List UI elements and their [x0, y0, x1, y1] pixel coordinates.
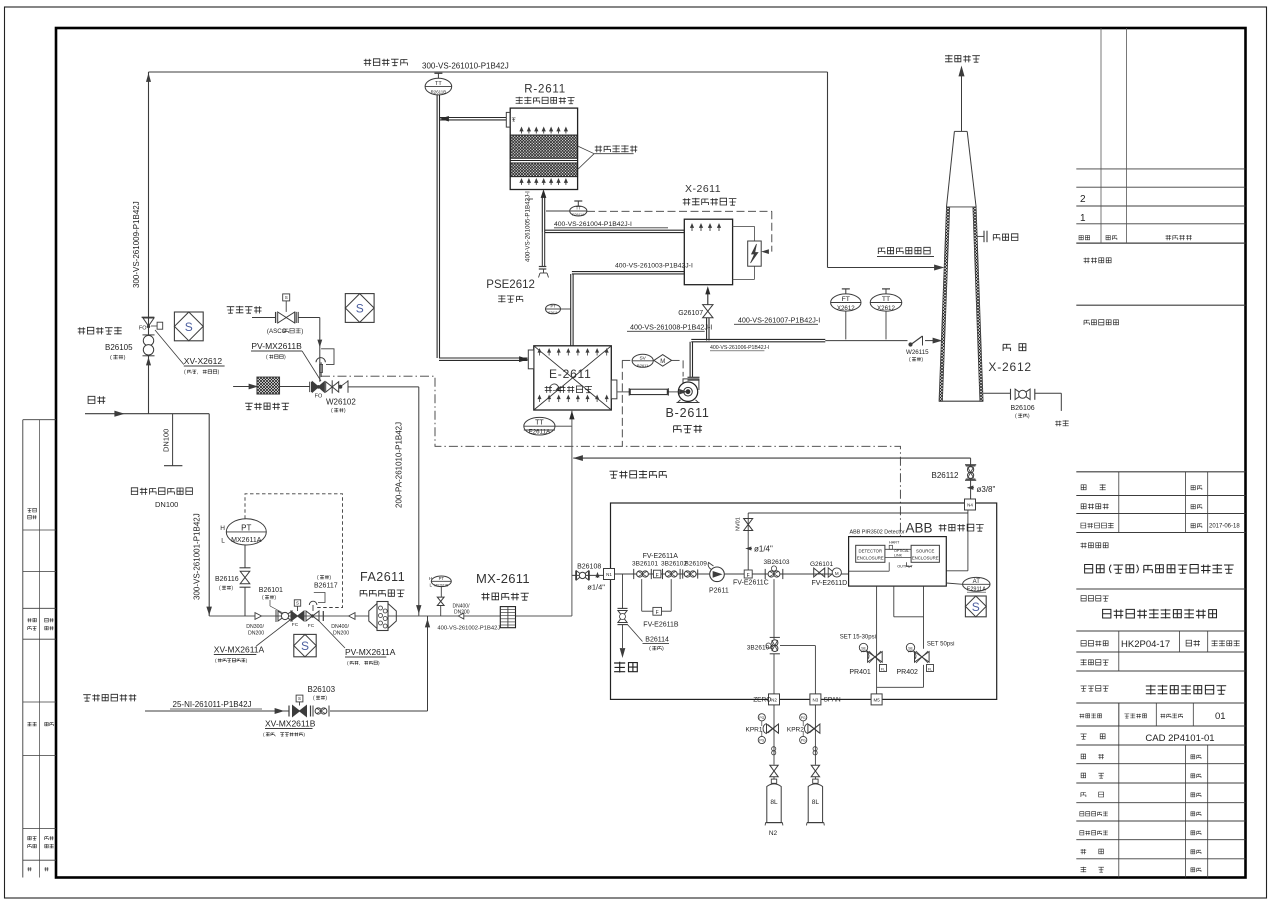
label 应急排放阀: [78, 327, 86, 334]
svg-text:2: 2: [1080, 194, 1086, 205]
svg-text:LINK: LINK: [894, 554, 903, 558]
svg-text:S: S: [356, 302, 364, 316]
regulator KPR1 and cylinder: [746, 705, 783, 826]
svg-text:KPR1: KPR1: [746, 727, 763, 734]
svg-text:3B26101: 3B26101: [632, 561, 658, 568]
svg-text:): ): [344, 408, 346, 414]
valve B26112: [965, 458, 976, 504]
label PV-MX2611A: [318, 620, 396, 667]
svg-text:HK2P04-17: HK2P04-17: [1121, 639, 1170, 650]
svg-text:E-2611: E-2611: [549, 367, 592, 381]
svg-text:SV: SV: [639, 355, 646, 361]
label XV-MX2611A: [214, 620, 290, 664]
svg-text:FA2611: FA2611: [360, 570, 405, 584]
svg-text:B26117: B26117: [314, 583, 338, 590]
svg-text:W26115: W26115: [906, 349, 929, 356]
heater element SCR box: [733, 226, 762, 279]
label 达标排放: [945, 55, 953, 63]
label B26103: [308, 685, 336, 702]
svg-text:ø3/8": ø3/8": [977, 485, 996, 494]
svg-text:OPTICAL: OPTICAL: [894, 549, 909, 553]
svg-text:F: F: [656, 573, 659, 579]
interlock diamond S1: [174, 312, 203, 341]
svg-text:H: H: [220, 525, 225, 532]
svg-text:PG: PG: [759, 739, 764, 743]
pipe main process line: [209, 615, 572, 617]
svg-text:X2612: X2612: [877, 305, 895, 312]
pipe nitrogen purge: [145, 709, 428, 714]
svg-text:): ): [284, 355, 286, 361]
pipe analyzer train: [615, 573, 849, 575]
flow marker right: [255, 613, 262, 620]
heater X-2611 vessel: [684, 219, 732, 285]
svg-text:FL: FL: [881, 667, 885, 671]
svg-text:DN100: DN100: [162, 429, 171, 452]
svg-text:): ): [124, 355, 126, 361]
title block grid: [1076, 28, 1245, 878]
label PR401 SET: [840, 635, 876, 677]
svg-text:TT: TT: [882, 296, 890, 303]
svg-text:FC: FC: [308, 623, 315, 629]
sample vent B26114: [618, 574, 628, 657]
svg-text:400-VS-261002-P1B42J: 400-VS-261002-P1B42J: [437, 626, 500, 632]
interlock diamond S4: [965, 596, 986, 617]
svg-text:B26103: B26103: [308, 685, 336, 694]
svg-text:1: 1: [1080, 213, 1086, 224]
svg-text:3B26102: 3B26102: [661, 561, 687, 568]
svg-text:): ): [301, 328, 303, 335]
pipe emergency vent header 300-VS-261010: [147, 72, 828, 414]
pipe heater inlet from E-2611: [571, 272, 685, 346]
valve 3B26104: [747, 579, 816, 694]
svg-text:CAD 2P4101-01: CAD 2P4101-01: [1145, 733, 1214, 744]
svg-text:HART: HART: [889, 541, 900, 545]
svg-text:PG: PG: [801, 739, 806, 743]
svg-text:S: S: [972, 600, 980, 614]
svg-text:ø1/4": ø1/4": [754, 545, 773, 554]
label DN300/DN200: [246, 624, 264, 637]
valve B26109: [682, 569, 684, 578]
label ABB 气体检测器: [906, 521, 984, 536]
calibration header pipe: [748, 510, 968, 571]
pipe fan discharge header: [690, 338, 941, 377]
svg-text:FO: FO: [139, 326, 147, 332]
svg-text:400-VS-261006-P1B42J-I: 400-VS-261006-P1B42J-I: [710, 345, 769, 351]
label 引风机: [674, 426, 682, 433]
junction N1: [604, 569, 615, 580]
svg-text:S: S: [285, 295, 288, 300]
svg-text:KPR2: KPR2: [787, 727, 804, 734]
valve XV-MX2611B: [289, 695, 311, 716]
pipe E-2611 bottom riser: [570, 410, 574, 616]
svg-text:FC: FC: [292, 622, 299, 628]
interlock diamond S3: [294, 634, 316, 656]
svg-text:DN200: DN200: [248, 631, 264, 637]
instrument FT X2612: [831, 294, 861, 311]
instrument PT MX2611B: [429, 576, 451, 616]
svg-text:G26107: G26107: [678, 310, 703, 317]
svg-text:G26101: G26101: [810, 561, 834, 568]
svg-text:SET 15-30psi: SET 15-30psi: [840, 635, 876, 641]
svg-text:300-VS-261010-P1B42J: 300-VS-261010-P1B42J: [422, 62, 509, 71]
pipe stack insulation line: [828, 72, 944, 270]
svg-text:XV-MX2611B: XV-MX2611B: [265, 719, 316, 729]
sampling port 采样口: [978, 231, 1018, 243]
valve G26101: [810, 561, 834, 577]
pipe sample take-off B26108: [572, 571, 604, 581]
label 废气进口采样口: [131, 488, 137, 495]
label B26106: [1011, 405, 1035, 420]
svg-text:PR401: PR401: [849, 669, 871, 676]
svg-text:FV-E2611C: FV-E2611C: [733, 580, 769, 587]
actuator PV-MX2611B: [316, 349, 334, 377]
svg-text:M: M: [835, 571, 839, 576]
svg-text:400-VS-261004-P1B42J-I: 400-VS-261004-P1B42J-I: [554, 221, 632, 228]
check valve W26115: [909, 336, 923, 346]
label PR402 SET: [897, 642, 955, 677]
dashed fan interlock box: [622, 360, 683, 446]
ABB detector unit: [849, 537, 947, 587]
svg-text:,: ,: [359, 662, 360, 667]
svg-text:TT: TT: [535, 420, 544, 427]
svg-text:R2611A: R2611A: [572, 213, 585, 217]
reactor R-2611 vessel: [506, 108, 577, 189]
svg-text:N2: N2: [769, 830, 778, 837]
svg-text:PT: PT: [241, 523, 251, 532]
fan B-2611: [677, 377, 700, 402]
svg-text:F: F: [656, 610, 659, 616]
svg-text:ABB PIR3502 Detector: ABB PIR3502 Detector: [850, 530, 905, 536]
pump P2611: [708, 563, 729, 595]
svg-text:3B26104: 3B26104: [747, 645, 773, 652]
flame arrestor FA2611: [369, 602, 397, 631]
svg-text:(: (: [1015, 414, 1017, 420]
svg-text:N4: N4: [967, 503, 973, 508]
svg-text:400-VS-261007-P1B42J-I: 400-VS-261007-P1B42J-I: [738, 316, 820, 325]
svg-text:B2611: B2611: [637, 363, 649, 368]
valve 3B26101: [633, 569, 635, 579]
svg-text:ENCLOSURE: ENCLOSURE: [857, 556, 884, 561]
svg-text:PV-MX2611A: PV-MX2611A: [345, 647, 396, 657]
svg-text:TT: TT: [576, 206, 582, 211]
stack discharge arrow: [959, 67, 964, 131]
svg-text:SOURCE: SOURCE: [916, 549, 935, 554]
svg-text:PG: PG: [801, 716, 806, 720]
instrument TT R2611A: [570, 206, 587, 216]
label 氮气吹扫排气: [83, 695, 91, 702]
svg-text:400-VS-261003-P1B42J-I: 400-VS-261003-P1B42J-I: [615, 263, 693, 270]
chimney X-2612: [939, 131, 983, 401]
pipe fresh air: [298, 318, 322, 382]
title block text: [1079, 194, 1240, 872]
svg-text:8L: 8L: [812, 799, 820, 806]
svg-text:(: (: [110, 355, 112, 361]
svg-text:MX-2611: MX-2611: [476, 571, 530, 586]
label 返回工艺管道: [610, 471, 618, 478]
svg-text:E2611: E2611: [549, 311, 558, 315]
bursting disc PSE2612: [539, 267, 549, 278]
label 新鲜空气: [227, 307, 235, 314]
static mixer MX-2611: [500, 607, 515, 628]
label B26117: [314, 575, 338, 590]
svg-text:FL: FL: [928, 667, 932, 671]
dash-dot heater control signal: [587, 211, 772, 253]
label 400-VS-261004-P1B42J-I: [554, 221, 668, 228]
svg-text:N2: N2: [771, 697, 777, 702]
svg-text:400-VS-261005-P1B42J-I: 400-VS-261005-P1B42J-I: [525, 191, 532, 262]
valve FV-E2611D: [812, 568, 848, 587]
label 管道阻火器: [360, 590, 367, 596]
pipe return to process: [573, 456, 970, 461]
label 气体混合器: [481, 593, 489, 601]
svg-text:,: ,: [275, 733, 276, 738]
dash-dot signal boundary: [321, 376, 900, 536]
instrument TT X2612: [870, 294, 902, 311]
svg-text:400-VS-261008-P1B42J-I: 400-VS-261008-P1B42J-I: [630, 323, 712, 332]
label B26114: [627, 624, 669, 652]
analyzer AT E2911A: [946, 577, 990, 592]
label XV-MX2611B: [263, 719, 316, 739]
svg-text:FV-E2611B: FV-E2611B: [643, 622, 679, 629]
filter F1: [654, 570, 661, 579]
valve W26102 FO control: [310, 380, 419, 399]
label DN400/DN200 small: [453, 604, 471, 616]
flow marker left: [349, 613, 355, 620]
svg-text:MX2611A: MX2611A: [231, 537, 262, 544]
svg-text:S: S: [298, 696, 301, 701]
label 25-NI-261011-P1B42J: [170, 700, 262, 709]
valve XV-MX2611A: [291, 600, 304, 628]
svg-text:PG: PG: [759, 716, 764, 720]
sample port DN100: [162, 414, 183, 466]
svg-text:ø1/4": ø1/4": [587, 583, 605, 592]
svg-text:X-2612: X-2612: [988, 360, 1032, 374]
svg-text:FV-E2611D: FV-E2611D: [812, 580, 848, 587]
svg-text:X-2611: X-2611: [685, 183, 721, 195]
svg-text:PR402: PR402: [897, 669, 919, 676]
svg-text:S: S: [296, 601, 299, 606]
pipe air to main line 200-PA: [417, 387, 421, 616]
svg-text:SE: SE: [861, 647, 866, 651]
label 烟囱下段保温: [877, 247, 934, 256]
svg-text:ENCLOSURE: ENCLOSURE: [912, 556, 939, 561]
svg-text:N3: N3: [813, 697, 819, 702]
valve B26105 emergency relief: [139, 317, 163, 365]
svg-text:(: (: [649, 646, 651, 652]
svg-text:S: S: [185, 320, 193, 334]
svg-text:R-2611: R-2611: [524, 84, 566, 96]
svg-text:B26112: B26112: [932, 471, 960, 480]
valve 3B26102: [662, 569, 664, 579]
valve B26103: [312, 706, 314, 717]
label 排净: [1055, 421, 1061, 427]
valve NV01: [736, 513, 774, 570]
svg-text:R2611B: R2611B: [431, 90, 447, 95]
regulator PR401: [859, 586, 886, 694]
svg-text:PSE2612: PSE2612: [486, 279, 535, 291]
svg-text:B-2611: B-2611: [666, 406, 710, 420]
svg-text:B26109: B26109: [685, 561, 708, 568]
svg-text:P2611: P2611: [709, 588, 729, 595]
heat exchanger E-2611: [528, 346, 617, 410]
svg-text:B26114: B26114: [645, 637, 669, 644]
svg-text:PT: PT: [550, 304, 556, 309]
svg-text:B26108: B26108: [577, 564, 601, 571]
svg-text:DETECTOR: DETECTOR: [859, 549, 883, 554]
filter FV-E2611C: [733, 570, 769, 587]
valve 3B26103: [764, 559, 790, 579]
instrument PT E2611: [546, 304, 571, 316]
valve ASCO solenoid: [252, 294, 298, 323]
svg-text:ABB: ABB: [906, 521, 933, 536]
label 400-VS-261005-P1B42J vertical: [525, 191, 534, 262]
svg-text:(: (: [184, 370, 186, 376]
label 400-VS-261008-P1B42J-I: [627, 323, 712, 332]
instrument TT R2611B: [425, 78, 452, 95]
label 废气: [88, 396, 95, 403]
junction N3 SPAN: [810, 694, 821, 705]
svg-text:B26101: B26101: [259, 587, 283, 594]
svg-text:FO: FO: [315, 394, 323, 400]
motor M diamond: [654, 355, 672, 367]
label PV-MX2611B: [251, 341, 321, 381]
svg-text:XV-X2612: XV-X2612: [184, 356, 223, 366]
spec break bar: [322, 611, 324, 621]
junction N2 ZERO: [769, 694, 780, 705]
svg-text:2017-06-18: 2017-06-18: [1209, 524, 1240, 530]
air filter 空气过滤器: [233, 377, 310, 394]
svg-text:SET 50psi: SET 50psi: [927, 642, 955, 648]
sample system enclosure box: [611, 503, 997, 699]
bypass FV-E2611B: [642, 579, 679, 628]
svg-text:300-VS-261009-P1B42J: 300-VS-261009-P1B42J: [132, 201, 141, 288]
instrument TT E2611A: [524, 417, 572, 435]
label 应急排放管: [364, 59, 372, 66]
instrument SV B2611: [632, 354, 653, 367]
fan suction pipe: [617, 388, 678, 395]
junction N4: [965, 499, 976, 510]
regulator PR402: [877, 586, 934, 687]
svg-text:PT: PT: [439, 576, 445, 581]
regulator KPR2 and cylinder: [787, 705, 824, 826]
label 防爆电加热器: [683, 198, 691, 205]
svg-text:TT: TT: [435, 81, 442, 87]
pipe reactor bottom feed: [541, 191, 684, 267]
svg-text:DN100: DN100: [155, 500, 178, 509]
label 空气过滤器: [245, 403, 253, 410]
label 烟囱 X-2612: [988, 344, 1032, 374]
svg-text:,: ,: [197, 370, 198, 376]
svg-text:SPAN: SPAN: [824, 697, 842, 704]
svg-text:B26105: B26105: [105, 343, 133, 352]
label 400-VS-261006-P1B42J-I: [710, 345, 769, 351]
pipe waste gas line: [85, 411, 211, 616]
svg-text:N1: N1: [606, 572, 612, 577]
svg-text:): ): [1028, 414, 1030, 420]
valve PV-MX2611A: [306, 593, 325, 630]
drain valve B26106: [983, 389, 1061, 411]
interlock diamond S2: [345, 294, 374, 323]
svg-text:FV-E2611A: FV-E2611A: [643, 553, 679, 560]
svg-text:L: L: [221, 537, 225, 544]
label 气-气换热器: [545, 386, 552, 393]
svg-text:01: 01: [1215, 711, 1226, 722]
flow marker left 2: [458, 613, 464, 619]
svg-text:E2911A: E2911A: [967, 587, 986, 593]
svg-text:): ): [662, 646, 664, 652]
svg-text:H: H: [429, 576, 432, 581]
pipe reactor outlet to E-2611: [437, 95, 527, 362]
valve B26116: [240, 545, 251, 616]
svg-text:SE: SE: [908, 647, 913, 651]
pipe nitrogen purge riser: [425, 616, 429, 711]
svg-text:B26106: B26106: [1011, 405, 1035, 412]
valve G26107: [703, 288, 713, 341]
label B26101: [259, 587, 283, 613]
svg-text:AT: AT: [973, 579, 981, 585]
svg-text:DN200: DN200: [333, 631, 349, 637]
svg-text:3B26103: 3B26103: [764, 559, 790, 566]
label XV-X2612: [155, 330, 225, 376]
svg-text:M: M: [660, 359, 665, 365]
svg-text:): ): [218, 370, 220, 376]
svg-text:200-PA-261010-P1B42J: 200-PA-261010-P1B42J: [395, 422, 404, 508]
svg-text:ZERO: ZERO: [753, 697, 771, 704]
label DN400/DN200: [331, 624, 349, 637]
svg-text:M5: M5: [873, 697, 880, 702]
svg-text:S: S: [301, 639, 309, 653]
svg-text:XV-MX2611A: XV-MX2611A: [214, 645, 265, 655]
svg-text:FT: FT: [842, 296, 850, 303]
svg-text:W26102: W26102: [326, 398, 356, 407]
svg-text:X2612: X2612: [837, 305, 855, 312]
svg-text:PV-MX2611B: PV-MX2611B: [251, 341, 302, 351]
svg-text:300-VS-261001-P1B42J: 300-VS-261001-P1B42J: [193, 513, 202, 600]
svg-text:(: (: [266, 355, 268, 361]
junction M5: [871, 694, 882, 705]
svg-text:F: F: [747, 573, 750, 579]
svg-text:DN300/: DN300/: [246, 624, 264, 630]
svg-text:8L: 8L: [770, 799, 778, 806]
valve B26101 ball: [276, 610, 292, 622]
label 取样: [614, 662, 625, 673]
label 催化燃烧反应器: [516, 97, 523, 104]
svg-text:DN400/: DN400/: [331, 624, 349, 630]
label 二级催化层: [578, 145, 638, 169]
instrument PT MX2611A: [220, 494, 342, 608]
svg-text:B26116: B26116: [215, 576, 239, 583]
label 400-VS-261007-P1B42J-I: [734, 316, 820, 325]
svg-text:NV01: NV01: [736, 517, 742, 531]
svg-text:(: (: [331, 408, 333, 414]
svg-text:25-NI-261011-P1B42J: 25-NI-261011-P1B42J: [173, 700, 252, 709]
left margin strip table: [23, 420, 56, 878]
